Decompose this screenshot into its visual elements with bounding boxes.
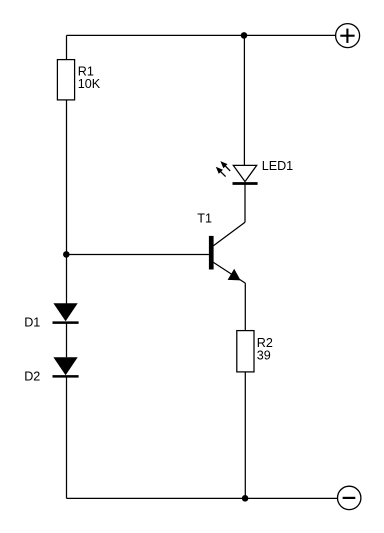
diode D1 <box>53 303 79 322</box>
wire left rail to D1 <box>66 255 68 304</box>
wire R2 to bottom rail <box>244 372 246 499</box>
transistor T1 (NPN) <box>209 222 245 283</box>
junction dot left (node base / D1) <box>63 251 70 258</box>
resistor R1 <box>57 60 74 100</box>
wire D1 to D2 <box>66 323 68 358</box>
svg-text:D2: D2 <box>24 369 40 383</box>
svg-text:10K: 10K <box>78 77 101 91</box>
power terminal - (negative supply) <box>338 486 361 509</box>
svg-text:39: 39 <box>257 349 271 363</box>
svg-text:D1: D1 <box>24 316 40 330</box>
wire LED anode (top junction to LED1) <box>243 35 245 165</box>
LED LED1 <box>216 161 258 183</box>
wire base (node to T1 base) <box>67 254 209 256</box>
wire left rail bottom (D2 to V- rail) <box>66 376 68 498</box>
junction dot top (node V+ / R1 / LED1) <box>241 32 248 39</box>
junction dot bottom (node V- / R2) <box>242 495 249 502</box>
wire left rail top (V+ to R1) <box>66 35 68 59</box>
wire top rail right (V+ net, to plus terminal) <box>244 34 336 36</box>
svg-text:T1: T1 <box>197 211 212 225</box>
wire top rail left (V+ net, left segment) <box>67 34 245 36</box>
wire bottom rail left (V- net) <box>67 497 246 499</box>
wire emitter (T1 to R2) <box>244 283 246 331</box>
wire left rail middle (R1 to base node) <box>66 100 68 255</box>
svg-text:LED1: LED1 <box>262 159 294 173</box>
resistor R2 <box>237 331 254 372</box>
diode D2 <box>53 357 79 376</box>
power terminal + (positive supply) <box>336 24 360 48</box>
wire bottom rail right (to minus terminal) <box>245 497 337 499</box>
wire LED cathode to collector <box>244 184 246 223</box>
